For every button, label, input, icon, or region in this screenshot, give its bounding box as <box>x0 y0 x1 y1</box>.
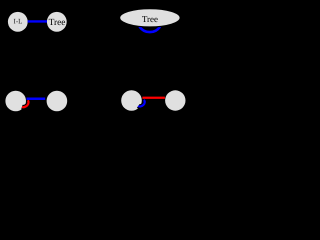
svg-text:Tree: Tree <box>142 14 158 24</box>
svg-text:Tree: Tree <box>49 18 66 28</box>
svg-text:I-L: I-L <box>14 18 23 26</box>
